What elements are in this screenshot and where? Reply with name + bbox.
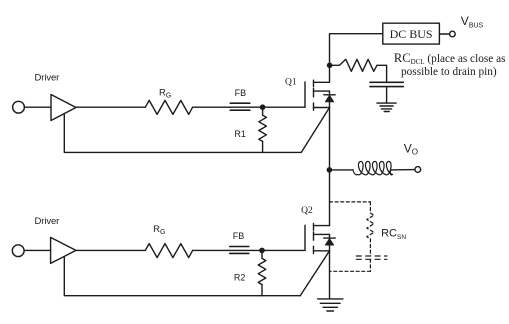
wire: top input to driver A1 bbox=[24, 106, 51, 108]
svg-text:VO: VO bbox=[404, 142, 418, 157]
resistor R2 (gate-source resistor, bottom) bbox=[258, 250, 266, 295]
terminal: VO bbox=[415, 167, 421, 173]
capacitor C of RC DCL clamp bbox=[370, 82, 403, 86]
wire: DC BUS box to VBUS terminal bbox=[439, 33, 449, 35]
resistor RG (bottom gate resistor) bbox=[145, 244, 192, 258]
driver A2 (bottom gate driver buffer) bbox=[51, 237, 76, 263]
ground (power ground under Q2) bbox=[318, 299, 343, 311]
ferrite bead FB (bottom) bbox=[230, 247, 249, 254]
svg-text:RG: RG bbox=[159, 88, 171, 100]
wire: bottom kelvin feedback (driver A2 to Q2 source) bbox=[64, 251, 329, 296]
svg-text:possible to drain pin): possible to drain pin) bbox=[401, 66, 497, 78]
svg-text:Q1: Q1 bbox=[285, 78, 297, 88]
wire: driver A1 output to RG bbox=[76, 106, 145, 108]
svg-text:R1: R1 bbox=[234, 129, 246, 139]
transistor Q2 (low-side SiC MOSFET) bbox=[305, 224, 330, 254]
node: top gate node junction bbox=[260, 104, 266, 110]
svg-text:RCSN: RCSN bbox=[381, 228, 406, 241]
inductor L (output) bbox=[353, 161, 393, 174]
wire: FB to gate node (top) bbox=[230, 106, 262, 108]
body diode of Q1 bbox=[324, 91, 335, 107]
label: RCDCL note bbox=[394, 51, 506, 78]
wire: FB to gate node (bottom) bbox=[230, 249, 262, 251]
terminal: VBUS bbox=[450, 31, 456, 37]
wire: Q1 source down to switch node bbox=[329, 108, 331, 170]
wire: inductor to VO terminal bbox=[391, 169, 415, 171]
wire: top kelvin feedback (driver A1 to Q1 source) bbox=[64, 108, 329, 153]
wire: gate node to Q1 gate bbox=[263, 106, 305, 108]
wire: bus node to RDCL bbox=[332, 64, 338, 66]
wire: Q1 drain to DC bus node bbox=[329, 65, 331, 82]
wire: gate node to Q2 gate bbox=[262, 249, 305, 251]
ground (RC DCL) bbox=[377, 103, 396, 111]
wire: switch node to output inductor bbox=[332, 169, 353, 171]
svg-text:RG: RG bbox=[153, 224, 165, 236]
wire: bottom input to driver A2 bbox=[24, 249, 50, 251]
resistor R of RC DCL clamp bbox=[340, 59, 378, 71]
body diode of Q2 bbox=[324, 234, 335, 250]
transistor Q1 (high-side SiC MOSFET) bbox=[305, 80, 330, 110]
wire: bus node up and to DC BUS box bbox=[330, 34, 383, 66]
resistor RG (top gate resistor) bbox=[145, 100, 192, 114]
wire: RDCL to CDCL bbox=[377, 65, 387, 82]
node: DC bus / Q1 drain junction bbox=[327, 63, 333, 69]
resistor R1 (gate-source resistor, top) bbox=[259, 107, 267, 152]
input terminal (top driver) bbox=[13, 101, 25, 113]
wire: driver A2 output to RG bbox=[76, 249, 145, 251]
svg-text:FB: FB bbox=[235, 88, 247, 98]
svg-text:RCDCL ​(place as close as: RCDCL ​(place as close as bbox=[394, 51, 506, 66]
input terminal (bottom driver) bbox=[12, 245, 24, 257]
wire: Q2 source down to ground bbox=[329, 251, 331, 299]
driver A1 (top gate driver buffer) bbox=[51, 95, 76, 121]
node: switch node junction bbox=[327, 167, 333, 173]
svg-text:Driver: Driver bbox=[35, 73, 60, 84]
wire: RG to FB (top) bbox=[193, 106, 231, 108]
wire: RG to FB (bottom) bbox=[193, 249, 230, 251]
wire: Q2 drain up to switch node bbox=[329, 170, 331, 226]
svg-text:DC BUS: DC BUS bbox=[390, 27, 433, 41]
svg-text:FB: FB bbox=[233, 231, 245, 241]
svg-text:VBUS: VBUS bbox=[461, 14, 484, 30]
DC BUS block bbox=[383, 23, 440, 44]
svg-text:R2: R2 bbox=[234, 273, 246, 283]
svg-text:Q2: Q2 bbox=[301, 206, 313, 216]
svg-text:Driver: Driver bbox=[35, 216, 60, 227]
ferrite bead FB (top) bbox=[230, 103, 250, 110]
snubber RCSN dashed network bbox=[330, 202, 388, 271]
node: bottom gate node junction bbox=[259, 248, 265, 254]
wire: CDCL to ground bbox=[386, 87, 388, 103]
